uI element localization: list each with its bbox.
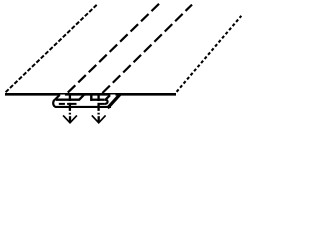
arrow 1 shaft tip inside head: [69, 116, 71, 122]
wire right plane edge (fine dashed): [177, 16, 242, 92]
white notch in plane line at seam right end: [110, 95, 115, 97]
seam top fold stroke B: [90, 99, 104, 101]
wire fold line 2 (long dashed diagonal): [102, 5, 192, 93]
arrow 1 dashed shaft: [69, 95, 71, 114]
arrow 2 shaft tip inside head: [98, 116, 100, 122]
sheet-metal flat lock seam diagram: [0, 0, 250, 130]
wire left plane edge (fine dashed): [6, 4, 98, 93]
wire plane front edge (solid line): [5, 93, 176, 96]
seam mid fold stroke (two pieces): [59, 103, 105, 105]
seam top fold stroke A with receding diagonal: [56, 95, 84, 100]
seam hem vertical edge: [90, 95, 92, 101]
wire fold line 1 (long dashed diagonal): [68, 4, 159, 93]
arrow 1 head: [63, 115, 77, 122]
seam inner hook receding diagonal: [106, 95, 111, 100]
seam inner hook right arc: [104, 100, 107, 104]
arrow 2 dashed shaft: [97, 95, 99, 114]
seam outer profile: left rounded end and bottom stroke: [53, 95, 111, 107]
white notch in plane line right of left-end diagonal: [60, 95, 65, 97]
seam right receding diagonal: [108, 95, 120, 109]
arrow 2 head: [92, 115, 106, 122]
